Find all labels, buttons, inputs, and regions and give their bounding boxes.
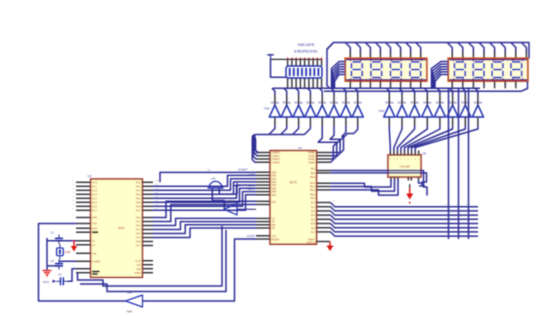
label RN1 value (294, 43, 318, 53)
svg-text:7406: 7406 (126, 310, 133, 314)
buffer U5B (7407 driver, apex up) (281, 100, 292, 117)
wire: DS1 bottom digit pins to bus (350, 81, 420, 88)
svg-text:2: 2 (467, 98, 468, 100)
svg-text:6: 6 (464, 85, 465, 87)
power VCC at U8 pin14 (419, 181, 426, 187)
power VCC label bottom-left (43, 280, 57, 284)
wire: control lines 8051 to 8279 (153, 201, 256, 237)
svg-text:1: 1 (422, 55, 423, 57)
svg-text:CLK: CLK (272, 235, 277, 238)
svg-text:P2.4: P2.4 (136, 233, 142, 236)
svg-text:8279: 8279 (290, 181, 297, 185)
wire: AD1-AD7 staircase 8051 to 8279 (153, 175, 256, 210)
svg-text:2: 2 (336, 98, 337, 100)
svg-text:DB7: DB7 (272, 194, 277, 197)
buffer U5G (7407 driver, apex up) (340, 100, 351, 117)
capacitor C1 30p (51, 231, 64, 245)
svg-text:1: 1 (475, 55, 476, 57)
svg-text:1: 1 (485, 55, 486, 57)
svg-text:2: 2 (324, 98, 325, 100)
svg-text:P0.3: P0.3 (136, 193, 142, 196)
wire: U6 inputs converge to U8 top pins (389, 117, 478, 151)
wire: crystal to XTAL pins (47, 238, 76, 270)
svg-text:CNTL/S: CNTL/S (306, 242, 315, 245)
ground (earth) symbol (43, 271, 52, 277)
svg-text:P1.5: P1.5 (92, 201, 98, 204)
svg-text:C1K7R: C1K7R (247, 235, 255, 238)
svg-text:1: 1 (409, 153, 410, 155)
wire: U5A-D inputs to U4 left OUT pins (252, 117, 310, 162)
svg-text:6: 6 (517, 85, 518, 87)
svg-text:2: 2 (454, 98, 455, 100)
svg-text:P0.2: P0.2 (136, 189, 142, 192)
label 7407 for row U6 (378, 109, 385, 113)
wire: U3A input from U4 (237, 208, 256, 210)
svg-text:RXD: RXD (92, 217, 97, 220)
svg-text:2: 2 (301, 86, 302, 88)
ground arrow at U4 CNTL (327, 242, 334, 252)
svg-text:6: 6 (372, 85, 373, 87)
wire: U4 scan-line bus to right (331, 203, 479, 237)
buffer U5F (7407 driver, apex up) (328, 100, 339, 117)
svg-text:ALE: ALE (136, 268, 141, 271)
svg-text:P1.0: P1.0 (92, 181, 98, 184)
svg-text:P0.0: P0.0 (136, 181, 142, 184)
svg-text:1: 1 (528, 55, 529, 57)
svg-text:BLb: BLb (311, 172, 316, 175)
svg-text:2: 2 (416, 98, 417, 100)
svg-text:P2.7: P2.7 (136, 245, 142, 248)
svg-text:C3: C3 (58, 273, 62, 277)
wire: bus under displays (lower) (324, 81, 528, 91)
buffer U5H (7407 driver, apex up) (352, 100, 363, 117)
svg-text:1: 1 (398, 153, 399, 155)
svg-text:7406: 7406 (228, 200, 234, 203)
ground arrow at U8 (406, 184, 413, 204)
svg-text:1: 1 (352, 55, 353, 57)
svg-text:6: 6 (528, 85, 529, 87)
svg-text:E RSET: E RSET (92, 260, 101, 263)
svg-text:6: 6 (453, 85, 454, 87)
svg-text:E I/O: E I/O (135, 260, 141, 263)
wire: DS2 left segment fan (432, 62, 449, 89)
svg-text:P2.5: P2.5 (136, 237, 142, 240)
wire: DS1 left segment fan (332, 62, 346, 89)
buffer U6H (7407 driver, apex up) (472, 100, 483, 117)
wire: top bus drops to DS1 digit pins (345, 43, 420, 59)
svg-text:6: 6 (422, 85, 423, 87)
svg-text:74LS08: 74LS08 (399, 165, 410, 169)
power arrow at RST area (71, 240, 77, 252)
svg-text:1: 1 (406, 153, 407, 155)
svg-text:1: 1 (372, 55, 373, 57)
svg-text:P0.5: P0.5 (136, 201, 142, 204)
wire: loop down-left B (80, 230, 226, 292)
capacitor C2 30p (51, 259, 64, 270)
display DS1 (4-digit 7-segment block) (345, 58, 427, 81)
svg-text:SL3: SL3 (311, 214, 316, 217)
wire: DS2 bottom digit pins to bus (452, 81, 516, 88)
svg-text:P1.7: P1.7 (92, 209, 98, 212)
svg-text:RESET: RESET (272, 239, 281, 242)
svg-text:1: 1 (506, 55, 507, 57)
svg-text:IRLd: IRLd (310, 189, 316, 192)
svg-text:2: 2 (404, 98, 405, 100)
inverter U9A 7406 (feedback) (121, 291, 148, 314)
buffer U6A (7407 driver, apex up) (384, 100, 395, 117)
svg-text:6: 6 (392, 85, 393, 87)
svg-text:U4: U4 (298, 146, 302, 150)
buffer U6C (7407 driver, apex up) (409, 100, 420, 117)
svg-text:U2: U2 (88, 174, 92, 178)
svg-text:2: 2 (323, 86, 324, 88)
svg-text:OA/BL3: OA/BL3 (272, 161, 281, 164)
buffer U6F (7407 driver, apex up) (447, 100, 458, 117)
svg-text:C2: C2 (51, 259, 55, 263)
svg-text:SL6: SL6 (311, 227, 316, 230)
label 7407 for row U5 (264, 107, 271, 111)
svg-text:1: 1 (402, 55, 403, 57)
svg-text:IRLa: IRLa (310, 176, 316, 179)
svg-text:P0.7: P0.7 (136, 209, 142, 212)
svg-text:TxD: TxD (137, 264, 142, 267)
power VCC arrow for RN1 (267, 55, 274, 60)
svg-text:SL1: SL1 (311, 206, 316, 209)
wire: U9A input from U4 CLK loop (143, 239, 257, 301)
inverter U3A 7406 (buzzer driver) (224, 200, 237, 215)
svg-text:1: 1 (382, 55, 383, 57)
svg-text:1: 1 (420, 153, 421, 155)
net labels near U4 left pins (247, 174, 255, 238)
svg-text:6: 6 (352, 85, 353, 87)
svg-text:P1.1: P1.1 (92, 185, 98, 188)
svg-text:P0.1: P0.1 (136, 185, 142, 188)
svg-text:OA/BL: OA/BL (308, 161, 316, 164)
svg-text:P0.6: P0.6 (136, 205, 142, 208)
svg-text:7407: 7407 (264, 107, 271, 111)
svg-text:SL0: SL0 (311, 202, 316, 205)
capacitor C3 10u (57, 273, 69, 286)
svg-text:2: 2 (441, 98, 442, 100)
svg-text:P1.4: P1.4 (92, 197, 98, 200)
svg-text:6: 6 (362, 85, 363, 87)
svg-text:2: 2 (297, 86, 298, 88)
svg-text:6: 6 (475, 85, 476, 87)
svg-text:RD: RD (272, 227, 276, 230)
svg-text:7407: 7407 (378, 109, 385, 113)
junction pin numbers on verticals (446, 204, 468, 206)
svg-text:2: 2 (479, 98, 480, 100)
svg-text:2: 2 (293, 86, 294, 88)
svg-text:BLa: BLa (311, 168, 316, 171)
svg-text:1: 1 (464, 55, 465, 57)
svg-text:1: 1 (416, 153, 417, 155)
wire: RN1 common to VCC (271, 59, 287, 77)
buffer U6G (7407 driver, apex up) (460, 100, 471, 117)
wire: U5E-H inputs to U4 right OUT pins (318, 117, 358, 162)
svg-text:1: 1 (392, 55, 393, 57)
svg-text:2: 2 (300, 98, 301, 100)
svg-text:IRQ: IRQ (272, 201, 276, 204)
svg-text:8051: 8051 (118, 226, 125, 230)
svg-text:SL7: SL7 (311, 231, 316, 234)
power VCC at buzzer (234, 182, 241, 186)
wire: digit-select verticals to bottom bus (449, 88, 469, 239)
svg-text:SL2: SL2 (311, 210, 316, 213)
svg-text:P2.3: P2.3 (136, 229, 142, 232)
display DS2 (4-digit 7-segment block) (448, 58, 528, 81)
svg-text:C1: C1 (51, 231, 55, 235)
wire: loop down-left A (78, 226, 223, 286)
buffer U5E (7407 driver, apex up) (317, 100, 328, 117)
svg-text:2: 2 (391, 98, 392, 100)
svg-text:P1.2: P1.2 (92, 189, 98, 192)
wire: top bus drops to DS2 digit pins (447, 43, 526, 59)
svg-text:PSEN: PSEN (134, 272, 141, 275)
buffer U6D (7407 driver, apex up) (422, 100, 433, 117)
svg-text:LS1: LS1 (211, 177, 216, 181)
wire: display common top bus (327, 43, 529, 59)
svg-text:2: 2 (306, 86, 307, 88)
svg-text:U9A: U9A (127, 291, 132, 295)
svg-text:P2.6: P2.6 (136, 241, 142, 244)
svg-text:P1.6: P1.6 (92, 205, 98, 208)
wire: U4 BD lines to U8 right hooks (331, 171, 428, 196)
svg-text:RAN 330*8: RAN 330*8 (298, 43, 314, 47)
svg-text:IRLf: IRLf (311, 197, 316, 200)
svg-text:1: 1 (402, 153, 403, 155)
wire: U6 outputs up to digit bus (386, 88, 478, 105)
svg-text:6: 6 (485, 85, 486, 87)
svg-text:U8: U8 (422, 152, 426, 156)
svg-text:6: 6 (412, 85, 413, 87)
IC U8 74LS08 quad AND (388, 151, 426, 181)
svg-text:2: 2 (359, 98, 360, 100)
svg-text:1: 1 (453, 55, 454, 57)
svg-text:P1.3: P1.3 (92, 193, 98, 196)
svg-text:1: 1 (391, 153, 392, 155)
svg-text:P0.4: P0.4 (136, 197, 142, 200)
svg-text:1: 1 (412, 55, 413, 57)
wire: U9A output loop to U2 (39, 224, 126, 302)
svg-text:2: 2 (429, 98, 430, 100)
svg-text:TXD: TXD (92, 223, 97, 226)
svg-text:INT0: INT0 (92, 227, 98, 230)
buffer U5D (7407 driver, apex up) (305, 100, 316, 117)
wire: buzzer legs (212, 186, 237, 210)
svg-text:2: 2 (347, 98, 348, 100)
pin numbers (decorative groups) (73, 55, 529, 232)
crystal Y1 (57, 244, 71, 259)
buffer U6E (7407 driver, apex up) (434, 100, 445, 117)
buzzer LS1 (208, 177, 224, 189)
buffer U5A (7407 driver, apex up) (269, 100, 280, 117)
buffer U6B (7407 driver, apex up) (396, 100, 407, 117)
svg-text:8-RESPACK/SIL: 8-RESPACK/SIL (294, 50, 318, 54)
svg-text:VCC: VCC (43, 280, 50, 284)
svg-text:2: 2 (289, 86, 290, 88)
wire: bus under displays (upper) (273, 87, 480, 89)
svg-text:P2.2: P2.2 (136, 225, 142, 228)
IC U4 8279 keyboard/display controller (256, 146, 331, 245)
svg-text:1: 1 (496, 55, 497, 57)
svg-text:X2a: X2a (92, 252, 97, 255)
wire: U8 outputs to U4 right pins (stepped) (331, 180, 399, 196)
resistor network RN1 330ohm x8 SIP (271, 58, 323, 89)
svg-text:1: 1 (517, 55, 518, 57)
svg-text:2: 2 (314, 86, 315, 88)
svg-text:6: 6 (382, 85, 383, 87)
wire: U5 outputs up to segment bus (272, 88, 358, 105)
svg-text:SL5: SL5 (311, 223, 316, 226)
IC U2 8051 microcontroller (76, 174, 153, 277)
svg-text:1: 1 (395, 153, 396, 155)
svg-text:6: 6 (506, 85, 507, 87)
svg-text:2: 2 (318, 86, 319, 88)
svg-text:2: 2 (288, 98, 289, 100)
svg-text:P2.1: P2.1 (136, 221, 142, 224)
svg-text:6: 6 (402, 85, 403, 87)
svg-text:1: 1 (413, 153, 414, 155)
wire: AD0 line with label (160, 168, 256, 183)
svg-text:2: 2 (312, 98, 313, 100)
svg-text:2: 2 (276, 98, 277, 100)
svg-text:A DAL7: A DAL7 (238, 168, 248, 172)
svg-text:2: 2 (310, 86, 311, 88)
svg-text:1: 1 (362, 55, 363, 57)
svg-text:6: 6 (496, 85, 497, 87)
svg-text:P2.0: P2.0 (136, 217, 142, 220)
wire: top-bus feed vertical left of DS1 (327, 43, 334, 89)
svg-text:SL4: SL4 (311, 218, 316, 221)
buffer U5C (7407 driver, apex up) (293, 100, 304, 117)
wire: C3 to RST pin (68, 269, 76, 282)
svg-text:6.0M: 6.0M (65, 250, 71, 254)
